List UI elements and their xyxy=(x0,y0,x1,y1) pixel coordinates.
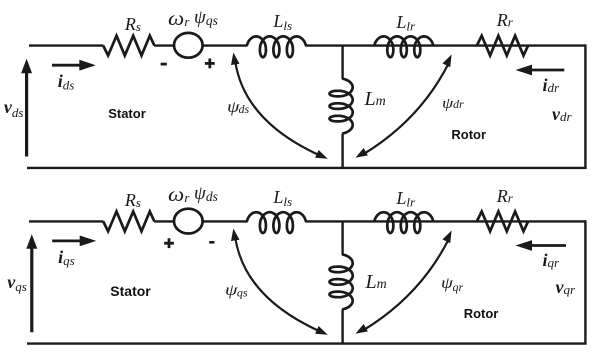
flux arrow psi_qs curve xyxy=(235,237,320,332)
voltage source circle (bottom q-axis) xyxy=(174,209,203,234)
wire L_ls to top-right corner (bottom q-axis) xyxy=(305,220,585,222)
wire top-left segment (top d-axis) xyxy=(29,44,103,46)
label L_m (top) xyxy=(365,89,386,109)
label psi_qr (flux) xyxy=(441,276,463,293)
resistor R_s (bottom q-axis) zigzag xyxy=(103,212,154,232)
label Stator (top) xyxy=(108,107,146,120)
label omega_r (bottom source) xyxy=(168,185,190,205)
label R_s (bottom) xyxy=(125,191,141,209)
arrow i_dr (left) xyxy=(516,65,565,76)
wire middle branch lower (top d-axis) xyxy=(341,134,343,168)
minus sign (top source left) xyxy=(161,63,167,66)
label Rotor (top) xyxy=(451,128,486,141)
flux arrow psi_dr head top xyxy=(443,55,452,68)
label L_ls (bottom) xyxy=(273,188,292,208)
label i_qs xyxy=(58,248,75,267)
plus sign (top source right) xyxy=(205,59,215,69)
wire bottom rail (bottom q-axis) xyxy=(27,342,587,344)
flux arrow psi_dr curve xyxy=(363,63,449,154)
label i_dr xyxy=(543,76,560,94)
label psi_ds (bottom source) xyxy=(194,184,218,204)
label omega_r (top source) xyxy=(168,9,190,29)
inductor L_m coil (bottom q-axis) xyxy=(330,254,353,309)
label v_qs xyxy=(7,273,27,293)
label R_r (bottom) xyxy=(497,187,513,205)
inductor L_lr coil (bottom q-axis) xyxy=(374,212,433,233)
wire L_ls to top-right corner (top d-axis) xyxy=(305,44,585,46)
wire bottom rail (top d-axis) xyxy=(27,167,587,169)
wire right vertical (top d-axis) xyxy=(584,44,586,167)
label psi_ds (flux) xyxy=(227,100,249,116)
wire source to L_ls (top d-axis) xyxy=(203,44,248,46)
arrow v_qs (up) xyxy=(26,234,37,332)
flux arrow psi_qr head top xyxy=(443,231,452,244)
minus sign (bottom source right) xyxy=(209,241,214,244)
wire right vertical (bottom q-axis) xyxy=(584,220,586,343)
flux arrow psi_ds head bottom xyxy=(315,150,328,159)
inductor L_ls coil (bottom q-axis) xyxy=(247,212,306,233)
label v_ds xyxy=(4,98,24,119)
label psi_qs (flux) xyxy=(225,283,247,299)
flux arrow psi_dr head bottom xyxy=(355,148,368,158)
label R_s (top) xyxy=(125,15,141,33)
voltage source circle (top d-axis) xyxy=(174,33,203,58)
flux arrow psi_ds head top xyxy=(231,53,240,66)
label i_qr xyxy=(543,251,560,269)
label i_ds xyxy=(58,72,75,91)
label L_lr (top) xyxy=(396,13,415,32)
label Stator (bottom) xyxy=(110,284,150,298)
label L_ls (top) xyxy=(273,12,292,32)
label R_r (top) xyxy=(497,11,513,29)
wire resistor to source (top d-axis) xyxy=(154,44,174,46)
wire top-left segment (bottom q-axis) xyxy=(29,220,103,222)
wire source to L_ls (bottom q-axis) xyxy=(203,220,248,222)
inductor L_ls coil (top d-axis) xyxy=(247,36,306,57)
arrow v_ds (up) xyxy=(21,59,32,157)
arrow i_qr (left) xyxy=(516,240,567,251)
inductor L_lr coil (top d-axis) xyxy=(374,36,433,57)
arrow i_ds (right) xyxy=(52,60,96,71)
flux arrow psi_qr head bottom xyxy=(355,324,368,334)
resistor R_r (top d-axis) zigzag xyxy=(477,36,528,56)
label psi_dr (flux) xyxy=(442,97,463,112)
label v_dr xyxy=(552,105,572,123)
label L_m (bottom) xyxy=(366,272,387,292)
flux arrow psi_qs head bottom xyxy=(315,326,328,335)
wire middle branch upper (bottom q-axis) xyxy=(341,221,343,255)
flux arrow psi_ds curve xyxy=(235,61,320,156)
label v_qr xyxy=(556,278,576,296)
wire resistor to source (bottom q-axis) xyxy=(154,220,174,222)
wire middle branch upper (top d-axis) xyxy=(341,46,343,80)
wire middle branch lower (bottom q-axis) xyxy=(341,309,343,343)
resistor R_r (bottom q-axis) zigzag xyxy=(477,212,528,232)
label L_lr (bottom) xyxy=(396,189,415,208)
label Rotor (bottom) xyxy=(464,307,499,320)
resistor R_s (top d-axis) zigzag xyxy=(103,36,154,56)
inductor L_m coil (top d-axis) xyxy=(330,79,353,134)
label psi_qs (top source) xyxy=(194,8,218,28)
arrow i_qs (right) xyxy=(52,236,96,247)
plus sign (bottom source left) xyxy=(164,238,174,248)
flux arrow psi_qr curve xyxy=(363,239,449,330)
flux arrow psi_qs head top xyxy=(231,229,240,242)
